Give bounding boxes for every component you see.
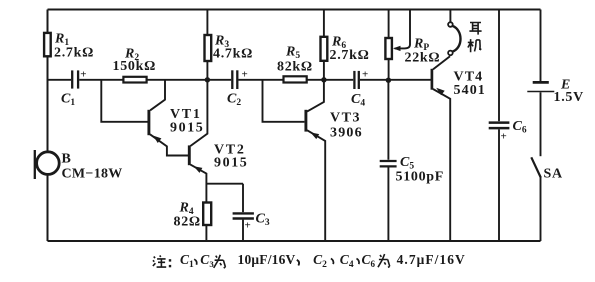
svg-text:10μF/16V: 10μF/16V	[238, 252, 296, 267]
svg-text:CM−18W: CM−18W	[62, 167, 123, 182]
svg-text:82kΩ: 82kΩ	[277, 60, 313, 75]
svg-text:4.7kΩ: 4.7kΩ	[213, 47, 253, 62]
svg-text:C2: C2	[227, 92, 241, 109]
svg-text:+: +	[80, 69, 87, 81]
svg-text:C3: C3	[200, 252, 214, 269]
svg-text:+: +	[362, 69, 369, 81]
svg-text:+: +	[242, 69, 249, 81]
svg-text:4.7μF/16V: 4.7μF/16V	[397, 252, 466, 267]
svg-text:3906: 3906	[330, 126, 363, 141]
svg-text:C6: C6	[513, 119, 527, 136]
svg-text:+: +	[245, 220, 252, 232]
svg-text:C1: C1	[61, 92, 75, 109]
svg-text:SA: SA	[544, 167, 563, 182]
svg-text:22kΩ: 22kΩ	[405, 51, 441, 66]
svg-text:5401: 5401	[454, 83, 486, 98]
svg-text:5100pF: 5100pF	[396, 170, 445, 185]
svg-text:2.7kΩ: 2.7kΩ	[54, 46, 94, 61]
svg-text:150kΩ: 150kΩ	[113, 59, 157, 74]
svg-text:C6: C6	[362, 252, 376, 269]
svg-text:82Ω: 82Ω	[174, 215, 201, 230]
svg-text:VT3: VT3	[330, 111, 361, 126]
svg-text:2.7kΩ: 2.7kΩ	[330, 48, 370, 63]
svg-text:C4: C4	[340, 252, 354, 270]
svg-text:C2: C2	[313, 252, 327, 270]
svg-text:C3: C3	[256, 212, 270, 229]
svg-text:+: +	[501, 131, 508, 143]
svg-text:9015: 9015	[214, 156, 248, 171]
svg-text:1.5V: 1.5V	[554, 90, 584, 105]
svg-text:9015: 9015	[170, 121, 204, 136]
svg-text:C1: C1	[180, 252, 194, 270]
svg-text:B: B	[62, 152, 72, 167]
svg-text:C4: C4	[351, 92, 365, 109]
